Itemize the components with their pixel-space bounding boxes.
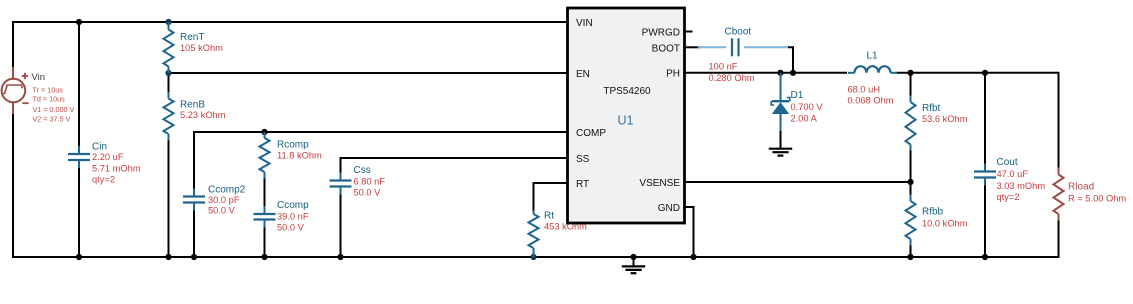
svg-text:TPS54260: TPS54260: [603, 86, 651, 97]
wire EN net: [169, 72, 568, 74]
node VOUT/Rfbt junction: [907, 70, 913, 76]
svg-text:3.03 mOhm: 3.03 mOhm: [997, 181, 1046, 191]
svg-text:47.0 uF: 47.0 uF: [997, 169, 1029, 179]
node rail/GND pin: [690, 254, 696, 260]
source minus terminal: [22, 102, 28, 104]
capacitor Css: [330, 173, 352, 195]
svg-text:50.0 V: 50.0 V: [208, 206, 236, 216]
svg-text:Vin: Vin: [32, 72, 46, 83]
svg-text:RenB: RenB: [180, 100, 205, 111]
voltage source Vin circle: [2, 67, 26, 114]
svg-text:qty=2: qty=2: [997, 192, 1020, 202]
svg-text:VSENSE: VSENSE: [639, 178, 680, 189]
wire Cout branch lower: [984, 185, 986, 257]
svg-text:10.0 kOhm: 10.0 kOhm: [922, 219, 968, 229]
svg-text:Ccomp: Ccomp: [277, 200, 309, 211]
resistor RenT: [164, 22, 174, 73]
svg-text:R = 5.00 Ohm: R = 5.00 Ohm: [1068, 194, 1126, 204]
svg-text:Rt: Rt: [544, 211, 554, 222]
svg-text:50.0 V: 50.0 V: [277, 223, 305, 233]
wire Ccomp2 branch lower: [193, 209, 195, 258]
wire Rfbt upper lead: [910, 73, 912, 96]
svg-text:RT: RT: [576, 179, 589, 190]
wire Css branch lower: [340, 193, 342, 258]
resistor Rcomp: [260, 132, 270, 179]
node VIN/Cin junction: [76, 19, 82, 25]
wire Rfbb lower to rail: [910, 245, 912, 257]
svg-text:53.6 kOhm: 53.6 kOhm: [922, 114, 968, 124]
svg-text:Ccomp2: Ccomp2: [208, 185, 246, 196]
node VIN/RenT junction: [165, 19, 171, 25]
wire VIN net: top rail: [13, 21, 568, 23]
svg-text:Tr = 10us: Tr = 10us: [33, 85, 64, 94]
wire RenB upper lead: [168, 73, 170, 92]
wire Cin branch lower (GND net): [78, 165, 80, 257]
node rail/Ccomp: [261, 254, 267, 260]
op-amp/regulator IC U1 body TPS54260: [568, 8, 685, 223]
resistor Rt: [529, 211, 539, 258]
svg-text:Cin: Cin: [92, 142, 107, 153]
node COMP/Rcomp junction: [261, 129, 267, 135]
wire VSENSE net: [685, 181, 911, 183]
wire Cout branch upper: [984, 73, 986, 165]
svg-text:PH: PH: [666, 69, 680, 80]
svg-text:GND: GND: [658, 203, 680, 214]
wire BOOT net left of Cboot: [685, 46, 701, 48]
node VOUT/Cout junction: [982, 70, 988, 76]
resistor Rfbt: [906, 96, 916, 151]
ground on rail: [622, 257, 645, 273]
svg-text:Css: Css: [354, 165, 371, 176]
node rail/Cin: [76, 254, 82, 260]
svg-text:30.0 pF: 30.0 pF: [208, 195, 240, 205]
wire Rfbt lower lead: [910, 150, 912, 182]
wire RenB lower to rail: [168, 140, 170, 257]
svg-text:BOOT: BOOT: [652, 43, 680, 54]
capacitor Ccomp2: [183, 189, 205, 211]
node rail/Cout: [982, 254, 988, 260]
svg-text:Rcomp: Rcomp: [277, 140, 309, 151]
svg-text:L1: L1: [866, 51, 878, 62]
svg-text:RenT: RenT: [180, 32, 204, 43]
svg-text:Rfbb: Rfbb: [922, 207, 944, 218]
node rail/RenB: [165, 254, 171, 260]
wire RT pin to Rt: [534, 183, 568, 211]
wire Cin branch upper (VIN net): [78, 22, 80, 148]
wire Rload lower to rail: [1058, 220, 1060, 258]
svg-text:100 nF: 100 nF: [709, 61, 738, 71]
node VSENSE/Rfbb junction: [907, 179, 913, 185]
inductor L1: [848, 66, 897, 73]
svg-text:COMP: COMP: [576, 128, 606, 139]
svg-text:5.23 kOhm: 5.23 kOhm: [180, 110, 226, 120]
wire Rfbb upper lead: [910, 182, 912, 195]
source plus terminal: [22, 73, 28, 79]
svg-text:D1: D1: [791, 90, 804, 101]
node rail/Rt: [530, 254, 536, 260]
svg-text:0.280 Ohm: 0.280 Ohm: [709, 73, 755, 83]
wire BOOT net corner down to PH: [788, 47, 793, 73]
node PH/D1 junction: [777, 70, 783, 76]
wire VOUT right edge down to Rload: [1058, 72, 1060, 168]
svg-text:0.068 Ohm: 0.068 Ohm: [848, 96, 894, 106]
svg-text:PWRGD: PWRGD: [642, 27, 680, 38]
wire Ccomp lower to rail: [264, 226, 266, 258]
node PH/Cboot junction: [790, 70, 796, 76]
svg-text:SS: SS: [576, 154, 590, 165]
node rail/Rfbb: [907, 254, 913, 260]
resistor RenB: [164, 92, 174, 141]
svg-text:Rfbt: Rfbt: [922, 103, 941, 114]
resistor Rfbb: [906, 195, 916, 246]
svg-text:11.8 kOhm: 11.8 kOhm: [277, 151, 322, 161]
svg-text:0.700 V: 0.700 V: [791, 102, 824, 112]
wire BOOT net highlighted left lead: [698, 46, 726, 48]
diode D1 (schottky): [771, 73, 790, 131]
svg-text:qty=2: qty=2: [92, 175, 115, 185]
svg-text:Rload: Rload: [1068, 182, 1094, 193]
svg-text:39.0 nF: 39.0 nF: [277, 212, 309, 222]
capacitor Cout: [974, 164, 996, 186]
node rail/ground symbol: [630, 254, 636, 260]
svg-text:Cboot: Cboot: [725, 27, 752, 38]
capacitor Cboot: [732, 38, 739, 56]
wire D1 anode to ground: [780, 130, 782, 148]
wire SS net: [341, 157, 568, 159]
svg-text:EN: EN: [576, 69, 590, 80]
wire GND pin to rail: [685, 207, 694, 257]
svg-text:VIN: VIN: [576, 18, 593, 29]
svg-text:Td = 10us: Td = 10us: [33, 95, 66, 104]
node rail/Css: [337, 254, 343, 260]
svg-text:Cout: Cout: [997, 157, 1018, 168]
svg-text:2.00 A: 2.00 A: [791, 114, 818, 124]
svg-text:2.20 uF: 2.20 uF: [92, 152, 124, 162]
ground under D1: [769, 149, 792, 156]
svg-text:105 kOhm: 105 kOhm: [180, 43, 223, 53]
svg-text:68.0 uH: 68.0 uH: [848, 85, 881, 95]
wire BOOT net highlighted right lead: [744, 46, 789, 48]
pin stub PWRGD (unconnected): [685, 31, 693, 33]
svg-text:6.80 nF: 6.80 nF: [354, 177, 386, 187]
node EN junction: [165, 70, 171, 76]
svg-text:5.71 mOhm: 5.71 mOhm: [92, 164, 141, 174]
svg-text:V2 = 37.5 V: V2 = 37.5 V: [33, 114, 71, 123]
wire COMP net: [194, 131, 568, 133]
resistor Rload: [1054, 168, 1064, 221]
wire Css branch upper: [340, 157, 342, 175]
wire Ccomp2 branch upper: [193, 131, 195, 190]
capacitor Cin: [68, 146, 90, 168]
node rail/Ccomp2: [191, 254, 197, 260]
wire VOUT net from L1 to output corner: [897, 72, 1059, 74]
wire ground rail: [13, 256, 1059, 258]
wire Rcomp to Ccomp link: [264, 178, 266, 208]
svg-text:U1: U1: [618, 114, 634, 128]
capacitor Ccomp: [254, 206, 276, 228]
wire PH net from IC to L1: [685, 72, 848, 74]
wire VIN net: left drop to source +: [12, 21, 14, 67]
svg-text:50.0 V: 50.0 V: [354, 188, 382, 198]
svg-text:V1 = 0.000 V: V1 = 0.000 V: [33, 105, 75, 114]
wire left edge down to rail (source -): [12, 114, 14, 258]
